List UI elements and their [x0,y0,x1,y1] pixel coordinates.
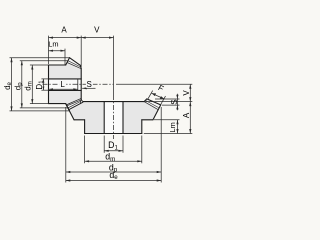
G2 left ledge [74,119,85,121]
A right bottom arrow [189,129,191,134]
G2 left tooth tip line [66,99,80,105]
svg-text:S: S [170,99,179,104]
dm bottom left arrow [85,160,90,162]
svg-text:L: L [60,80,65,89]
G2 bottom face [85,133,142,135]
G1 bottom heel face [66,104,70,111]
ext: dp bottom [20,107,68,109]
dim line de bottom [66,180,161,182]
G2 left tooth tip face [81,99,83,102]
label L (on centerline, white backed) [59,81,66,88]
D1 bottom right arrow [119,150,124,152]
svg-text:V: V [182,90,191,96]
ext: G1 back face up [80,36,82,68]
de top arrow [10,58,12,63]
G1 bore bottom edge [49,89,82,91]
G1 top tooth tip face [79,65,82,68]
ext: G2 top face right [145,101,192,103]
gear G2 right tooth band fill [144,99,161,110]
G2 right tooth root line [144,102,158,110]
G1 bottom heel face (tooth side) [66,104,70,111]
dim line V [81,37,113,39]
svg-text:Lm: Lm [168,122,177,132]
V left arrow [81,37,86,39]
svg-text:A: A [61,26,67,35]
ext: bottom hub left [84,136,86,164]
L left arrow [49,88,54,90]
gear G2 bore (white) [104,102,123,134]
G2 right tooth tip line [147,99,161,105]
G1 hub left face [48,65,50,104]
dp bottom arrow [21,103,23,108]
dm top arrow [31,65,33,70]
G2 bore left edge [103,102,105,134]
V right arrow [109,37,114,39]
dim line V right vertical [189,84,191,101]
svg-text:de: de [3,81,13,89]
G1 top heel face [66,58,70,65]
dim line dm bottom [85,160,142,162]
ext: bottom hub right [141,136,143,164]
L right arrow [73,88,78,90]
F dim line [152,93,165,99]
centerline G1 axis [43,83,114,85]
ext: gear1 axis right extension [116,83,192,85]
svg-text:Lm: Lm [48,40,58,49]
G1 back face [80,69,82,100]
svg-text:F: F [157,83,166,93]
dp top arrow [21,61,23,65]
G1 bottom tooth tip face [79,100,82,103]
ext: de top [10,57,70,59]
ext/centerline: G2 axis upper [113,36,115,95]
D1 bottom left arrow [104,150,109,152]
left dim dm vertical [31,65,33,104]
ext: G2 tip-heel plane right (S bottom) [162,104,180,106]
S right dim bottom arrow (outside, pointing up) [176,105,178,109]
ext: G2 toe-tip plane right (S top) [155,98,180,100]
F heel arrow [160,96,165,99]
left dim D1 vertical [42,79,44,90]
svg-text:dp: dp [13,82,23,90]
dim line L [49,88,78,90]
D1 top arrow [42,79,44,83]
svg-text:A: A [182,112,191,118]
ext: G1 hub left face up [48,36,50,64]
dm bottom right arrow [137,160,142,162]
G1 bore right end line [77,79,79,91]
G2 right ledge [142,119,153,121]
dim line S left arrow line [82,87,95,89]
dp bottom right arrow [157,171,162,173]
A right top arrow [189,102,191,107]
F ext line toe side [148,91,153,99]
de bottom left arrow [66,179,71,181]
G2 right back-cone slant [153,105,161,120]
ext: bottom de left [65,107,67,183]
svg-text:V: V [94,26,100,35]
shared pitch line [68,102,81,108]
ext: G2 bottom face right [144,133,193,135]
G2 top face [83,101,144,103]
dim line dp bottom [66,171,161,173]
ext: D1 top [41,78,48,80]
ext: G2 ledge right (Lm) [154,119,180,121]
S left arrow [82,87,87,89]
ext: bottom bore left [103,136,105,153]
G2 left root line [69,102,83,110]
V right top arrow [189,84,191,89]
A right arrow [77,37,82,39]
G1 top tooth pitch line [68,61,81,67]
dp bottom left arrow [66,171,71,173]
svg-text:dm: dm [24,81,34,90]
dim line A right vertical [189,102,191,134]
svg-text:S: S [87,80,92,89]
dim line A [49,37,82,39]
dim line S right vertical [176,94,178,110]
Lm right bottom arrow [176,129,178,134]
ext: dm bottom [30,103,49,105]
de bottom right arrow [157,179,162,181]
ext: bottom de right [160,107,162,183]
svg-text:dm: dm [105,152,115,163]
G2 right tooth tip face [144,99,147,102]
dim line D1 bottom [104,150,123,152]
Lm left arrow [49,50,54,52]
Lm right top arrow [176,120,178,125]
V right bottom arrow [189,97,191,102]
ext: bottom bore right [122,136,124,153]
label S left (on centerline, white backed) [86,81,93,88]
G1 bore top edge [49,78,82,80]
left dim dp vertical [21,61,23,108]
ext: dp top [20,60,68,62]
G1 hub top face [49,64,66,66]
dm bottom arrow [31,99,33,104]
gear G1 bore (white) [49,79,82,91]
G2 left tooth heel/back-cone slant [66,105,74,120]
gear G2 body (gear, vertical axis) [66,99,160,134]
dim line Lm top [49,50,66,52]
G1 bottom root line [67,100,82,106]
G2 right tooth pitch line [146,101,159,108]
ext: de bottom [10,110,70,112]
centerline G2 axis lower [113,95,115,139]
svg-text:D1: D1 [108,140,118,151]
dim line Lm right vertical [177,120,179,134]
mesh zone fill (G1 bottom tooth + G2 left tooth) [66,99,83,111]
Lm right arrow [61,50,66,52]
G2 bore right edge [122,102,124,134]
F toe arrow [152,93,157,96]
gear G1 body (pinion, horizontal axis) [49,58,82,111]
ext: D1 bottom [41,89,48,91]
de bottom arrow [10,106,12,111]
ext: dm top (hub top extended) [30,64,49,66]
D1 bottom arrow [42,87,44,91]
ext: Lm right (hub length) [64,49,66,65]
svg-text:D1: D1 [35,80,45,90]
G1 hub bottom face [49,103,66,105]
G2 hub right side [141,120,143,134]
F ext line heel side [161,96,166,104]
G1 top tooth root line [67,62,81,68]
A left arrow [49,37,54,39]
gear G1 top tooth band fill [67,58,81,69]
left dim de vertical [11,58,13,111]
G1 top tooth tip line [70,58,81,66]
G2 hub left side [84,120,86,134]
S right dim top arrow (outside, pointing down) [176,95,178,99]
